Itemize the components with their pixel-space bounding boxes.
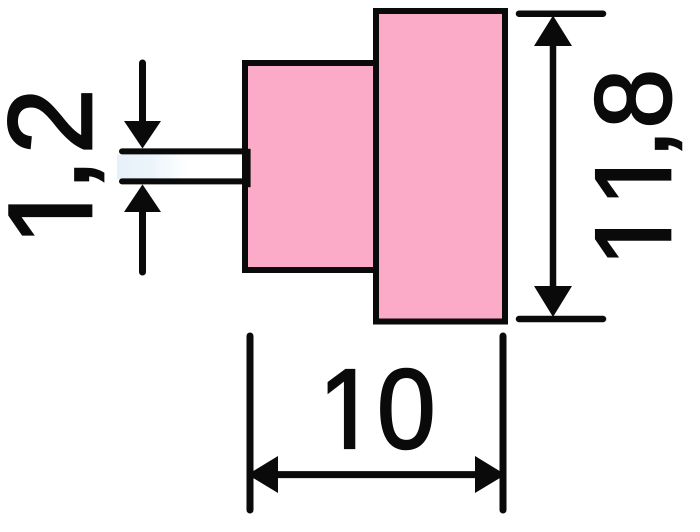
dimension 1,2 highlight band bbox=[117, 155, 187, 180]
dimension 10 right arrowhead bbox=[475, 456, 506, 493]
dimension label 11,8 (rotated) bbox=[595, 73, 681, 256]
rib edge emphasis at part boundary bbox=[244, 149, 251, 187]
dimension 10 line bbox=[276, 471, 477, 478]
dimension 1,2 upper arrowhead (down) bbox=[124, 121, 161, 149]
dimension 11,8 top arrowhead (up) bbox=[534, 16, 572, 47]
dimension 1,2 lower leader line bbox=[139, 207, 146, 272]
dimension 11,8 bottom arrowhead (down) bbox=[534, 286, 572, 317]
dimension 1,2 upper extension line bbox=[122, 148, 242, 154]
dimension 11,8 top tick bbox=[519, 10, 603, 17]
dimension 11,8 bottom tick bbox=[519, 316, 603, 323]
dimension 10 right extension line bbox=[500, 336, 507, 510]
dimension 1,2 lower arrowhead (up) bbox=[124, 184, 161, 212]
dimension 1,2 lower extension line bbox=[122, 178, 242, 184]
dimension 10 left extension line bbox=[247, 336, 254, 510]
dimension label 10 bbox=[329, 369, 432, 449]
dimension 1,2 upper leader line bbox=[139, 63, 146, 126]
dimension 11,8 line bbox=[550, 44, 557, 288]
part body: left block bbox=[245, 63, 379, 270]
dimension 10 left arrowhead bbox=[248, 456, 279, 493]
dimension label 1,2 (rotated) bbox=[8, 94, 103, 234]
part body: right block bbox=[376, 11, 505, 322]
